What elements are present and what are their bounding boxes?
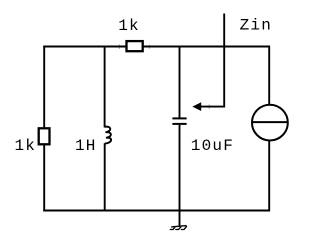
current source I1 circle [252, 105, 288, 141]
wire current source upper [268, 46, 270, 106]
inductor L1 coil [105, 127, 112, 144]
ground symbol [170, 226, 187, 230]
svg-text:1H: 1H [75, 137, 97, 155]
wire left branch [43, 46, 45, 212]
Zin probe horizontal wire [200, 106, 226, 108]
capacitor C1 top plate [172, 117, 186, 119]
svg-text:1k: 1k [15, 137, 37, 155]
pin tick left of R2 [118, 44, 120, 49]
svg-text:1k: 1k [118, 17, 140, 35]
wire ground stub [179, 211, 181, 226]
wire inductor branch lower [104, 143, 106, 211]
pin tick on Zin arrow wire [208, 104, 210, 109]
wire current source lower [268, 139, 270, 211]
wire capacitor branch lower [179, 125, 181, 211]
wire bottom rail [43, 210, 270, 212]
svg-text:10uF: 10uF [191, 137, 234, 155]
current source I1 bar [252, 121, 289, 123]
resistor R2 1k (top horizontal) [127, 41, 143, 51]
Zin arrowhead [193, 103, 201, 111]
wire top rail [43, 46, 270, 48]
capacitor C1 bottom plate [172, 123, 186, 125]
resistor R1 1k (left vertical) [39, 128, 50, 144]
Zin probe vertical wire [223, 14, 225, 107]
svg-text:Zin: Zin [240, 17, 272, 35]
wire inductor branch upper [104, 46, 106, 128]
wire capacitor branch upper [179, 46, 181, 118]
pin tick right of R2 [148, 44, 150, 49]
